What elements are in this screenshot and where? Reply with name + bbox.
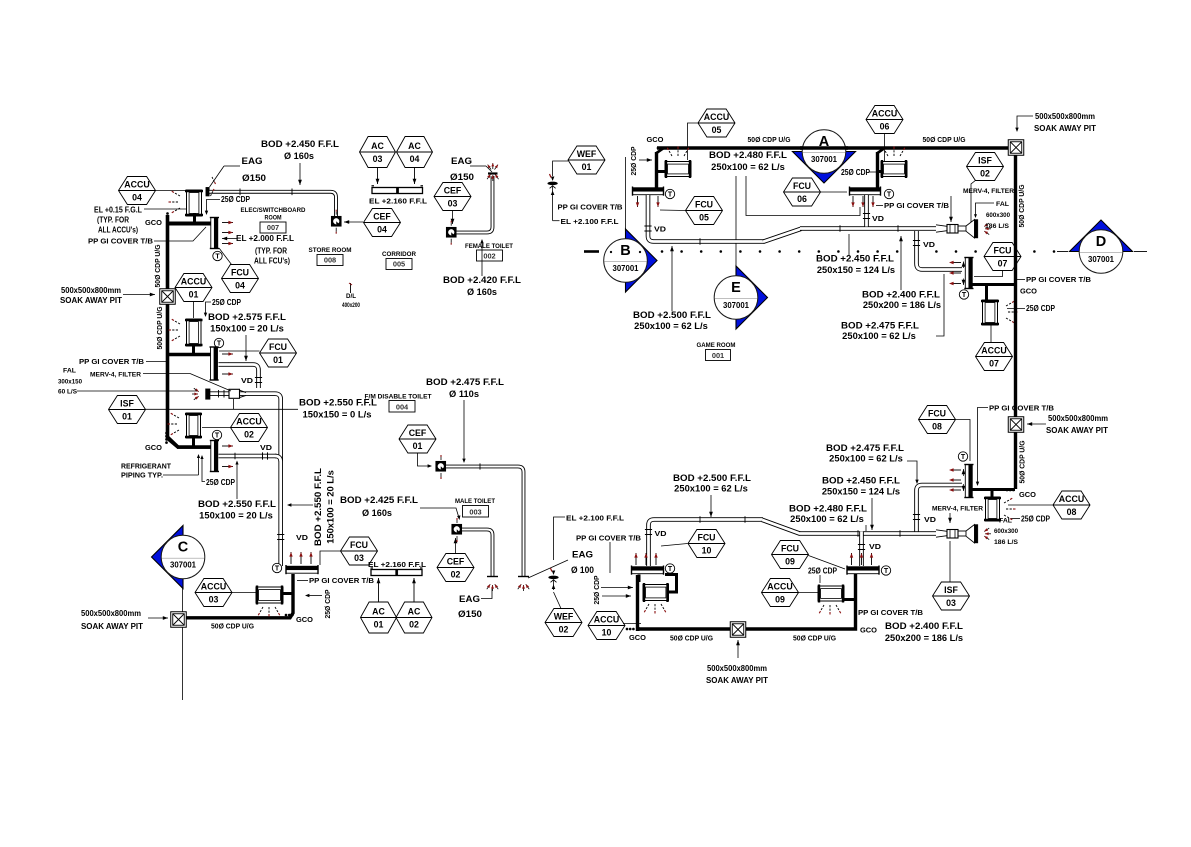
- duct riser to FCU07: [917, 231, 963, 270]
- svg-text:05: 05: [699, 213, 709, 223]
- hexagon tag CEF 01: [399, 425, 436, 453]
- svg-text:500x500x800mm: 500x500x800mm: [61, 286, 121, 295]
- svg-text:06: 06: [797, 194, 807, 204]
- svg-text:ACCU: ACCU: [981, 345, 1006, 355]
- svg-text:SOAK AWAY PIT: SOAK AWAY PIT: [60, 296, 122, 305]
- section cut centerline dash left of B: [584, 250, 599, 253]
- ACCU 07 unit: [983, 300, 998, 325]
- svg-text:VD: VD: [655, 529, 668, 538]
- VD damper FCU10: [645, 529, 652, 531]
- refrigerant marks ACCU08: [1004, 500, 1010, 504]
- service marks EAG cap top-left: [212, 177, 215, 182]
- svg-text:BOD +2.500 F.F.L: BOD +2.500 F.F.L: [673, 473, 752, 483]
- VD damper riser FCU08: [913, 514, 920, 516]
- svg-text:T: T: [215, 433, 220, 440]
- duct diagonal jog: [763, 229, 801, 242]
- GCO ticks ACCU02: [165, 432, 168, 435]
- leader ISF03: [949, 541, 951, 582]
- svg-text:01: 01: [122, 412, 132, 422]
- leader soak pit bottom: [737, 640, 739, 658]
- svg-text:10: 10: [602, 628, 612, 638]
- svg-text:Ø150: Ø150: [242, 173, 266, 183]
- svg-text:EAG: EAG: [242, 156, 263, 166]
- svg-text:25Ø CDP: 25Ø CDP: [1026, 304, 1055, 313]
- vertical text 500 CDP U/G right lower: [1018, 440, 1027, 483]
- svg-text:500x500x800mm: 500x500x800mm: [81, 609, 141, 618]
- hexagon tag ACCU 06: [866, 106, 903, 134]
- svg-text:307001: 307001: [723, 301, 750, 310]
- svg-text:ACCU: ACCU: [124, 179, 149, 189]
- FAL grille bar left: [206, 389, 211, 400]
- svg-text:25Ø CDP: 25Ø CDP: [323, 589, 332, 618]
- hexagon tag AC 04: [397, 137, 433, 168]
- svg-text:FCU: FCU: [231, 267, 249, 277]
- ACCU 04 outdoor unit: [187, 190, 202, 216]
- svg-text:SOAK AWAY PIT: SOAK AWAY PIT: [81, 622, 143, 631]
- svg-text:EAG: EAG: [459, 594, 480, 604]
- return air assembly ISF01: [206, 394, 281, 566]
- ACCU 01 unit: [187, 319, 202, 346]
- svg-text:GCO: GCO: [145, 218, 162, 227]
- hexagon tag ACCU 02: [231, 414, 268, 442]
- svg-text:500x500x800mm: 500x500x800mm: [1048, 414, 1108, 423]
- svg-text:ACCU: ACCU: [201, 581, 226, 591]
- hexagon tag ACCU 08: [1053, 491, 1090, 519]
- svg-text:Ø 100: Ø 100: [571, 565, 594, 575]
- hexagon tag AC 03: [360, 137, 396, 168]
- FCU 04 unit: [211, 218, 215, 249]
- ceiling fan box CEF03 female toilet: [447, 228, 457, 238]
- svg-text:FAL: FAL: [996, 201, 1009, 208]
- EAG terminal male duct: [495, 584, 498, 589]
- svg-text:25Ø CDP: 25Ø CDP: [808, 567, 837, 576]
- svg-text:50Ø CDP U/G: 50Ø CDP U/G: [1018, 440, 1027, 483]
- leader FCU05: [660, 209, 686, 212]
- svg-text:D: D: [1096, 234, 1106, 250]
- svg-text:04: 04: [377, 225, 387, 235]
- svg-text:PP GI COVER T/B: PP GI COVER T/B: [884, 201, 950, 210]
- section marker A 307001: [793, 152, 856, 184]
- leader WEF02: [554, 592, 562, 609]
- svg-text:BOD +2.575 F.F.L: BOD +2.575 F.F.L: [208, 312, 287, 322]
- svg-text:ACCU: ACCU: [594, 614, 619, 624]
- refrigerant marks ACCU09: [821, 605, 825, 611]
- leader arrow 250CDP FCU05: [639, 159, 652, 161]
- ACCU 06 outdoor unit: [881, 162, 907, 177]
- svg-text:BOD +2.450 F.F.L: BOD +2.450 F.F.L: [822, 476, 901, 486]
- svg-text:250x100 = 62 L/s: 250x100 = 62 L/s: [842, 331, 916, 341]
- svg-text:B: B: [620, 243, 630, 259]
- svg-text:WEF: WEF: [554, 611, 574, 621]
- thermostat T FCU04: [213, 251, 222, 260]
- svg-text:PP GI COVER T/B: PP GI COVER T/B: [88, 237, 154, 246]
- svg-text:01: 01: [582, 162, 592, 172]
- MERV-4 filter box top right: [947, 225, 958, 234]
- svg-text:GAME ROOM: GAME ROOM: [697, 342, 736, 349]
- EAG terminal FM duct: [526, 584, 529, 589]
- svg-text:T: T: [275, 566, 280, 573]
- svg-text:Ø 160s: Ø 160s: [362, 508, 392, 518]
- svg-text:VD: VD: [241, 376, 254, 385]
- svg-text:C: C: [178, 540, 189, 556]
- section marker E 307001: [735, 176, 737, 275]
- svg-text:VD: VD: [654, 225, 667, 234]
- svg-text:06: 06: [880, 122, 890, 132]
- svg-text:WEF: WEF: [577, 149, 597, 159]
- hexagon tag CEF 03: [434, 183, 471, 211]
- leader arrow rotated BOD: [289, 504, 313, 506]
- thermostat T FCU10: [665, 564, 674, 573]
- vertical text 500 CDP U/G lower: [155, 306, 164, 349]
- arrows AC01 AC02 to diffuser: [378, 578, 380, 602]
- svg-text:09: 09: [785, 557, 795, 567]
- svg-text:03: 03: [373, 154, 383, 164]
- svg-text:T: T: [961, 454, 966, 461]
- hexagon tag ACCU 07: [976, 343, 1013, 371]
- condensate loop bottom: [639, 574, 856, 629]
- svg-text:01: 01: [374, 620, 384, 630]
- svg-text:FCU: FCU: [269, 342, 287, 352]
- leader WEF01 to cowl: [553, 161, 568, 176]
- svg-text:50Ø CDP U/G: 50Ø CDP U/G: [153, 244, 162, 287]
- vertical text 250 CDP FCU03: [323, 589, 332, 618]
- svg-text:PP GI COVER T/B: PP GI COVER T/B: [1026, 275, 1092, 284]
- hexagon tag FCU 03: [341, 537, 378, 565]
- svg-text:ALL ACCU's): ALL ACCU's): [98, 226, 138, 235]
- duct joint ticks misc: [239, 189, 241, 196]
- svg-text:04: 04: [410, 154, 420, 164]
- svg-text:09: 09: [775, 595, 785, 605]
- svg-text:08: 08: [1067, 507, 1077, 517]
- svg-text:07: 07: [998, 259, 1008, 269]
- duct run upper level to FAL: [800, 226, 936, 231]
- svg-text:E: E: [731, 280, 741, 296]
- hexagon tag ACCU 01: [175, 274, 212, 302]
- svg-text:250x100 = 62 L/s: 250x100 = 62 L/s: [634, 321, 708, 331]
- FCU 08 unit: [965, 465, 969, 498]
- arrows AC03 AC04 to diffuser: [377, 168, 379, 185]
- refrigerant marks ACCU07: [1006, 303, 1012, 307]
- svg-text:(TYP. FOR: (TYP. FOR: [255, 247, 287, 256]
- svg-text:300x150: 300x150: [58, 379, 82, 386]
- line below C marker: [182, 589, 184, 613]
- svg-text:PIPING TYP.: PIPING TYP.: [121, 473, 163, 480]
- svg-text:EAG: EAG: [572, 550, 593, 560]
- VD damper FCU09: [858, 544, 865, 546]
- refrigerant marks ACCU06: [885, 150, 889, 156]
- flow arrows FCU02: [222, 445, 233, 447]
- FCU 01 unit: [211, 347, 215, 380]
- pipe ACCU01 drain: [192, 346, 195, 356]
- hexagon tag FCU 07: [984, 243, 1021, 271]
- duct riser FCU09: [859, 532, 864, 567]
- slot diffuser EL+2.160 top: [372, 188, 423, 194]
- main pipe through marker A: [800, 146, 848, 149]
- duct stub to FAL cone bottom: [958, 530, 966, 532]
- ceiling fan box CEF04: [332, 217, 342, 227]
- svg-text:ACCU: ACCU: [872, 108, 897, 118]
- svg-text:ISF: ISF: [978, 155, 992, 165]
- svg-text:150x100 = 20 L/s: 150x100 = 20 L/s: [210, 324, 284, 334]
- svg-text:D/L: D/L: [346, 293, 356, 300]
- hexagon tag FCU 10: [688, 530, 725, 558]
- svg-text:EL +2.000 F.F.L: EL +2.000 F.F.L: [236, 234, 294, 243]
- leader FCU10: [661, 544, 688, 547]
- svg-text:GCO: GCO: [1020, 287, 1037, 296]
- D/L symbol and label: [350, 283, 352, 293]
- leader ISF01 and BOD2.550 zero: [146, 408, 299, 410]
- vertical text 250 CDP ACCU10: [592, 575, 601, 604]
- hexagon tag FCU 08: [919, 406, 956, 434]
- svg-text:03: 03: [209, 595, 219, 605]
- hexagon tag ISF 03: [933, 582, 970, 610]
- svg-text:600x300: 600x300: [986, 212, 1010, 219]
- svg-text:T: T: [884, 568, 889, 575]
- flow arrows FCU07 left: [951, 262, 961, 264]
- svg-text:SOAK AWAY PIT: SOAK AWAY PIT: [706, 676, 768, 685]
- svg-text:04: 04: [235, 281, 245, 291]
- hexagon tag ACCU 04: [119, 177, 156, 205]
- pipe ACCU05 drain: [655, 152, 658, 189]
- hexagon tag WEF 02: [545, 609, 582, 637]
- centerline dots B: [610, 251, 612, 253]
- svg-text:VD: VD: [260, 443, 273, 452]
- svg-text:EAG: EAG: [451, 156, 472, 166]
- svg-text:VD: VD: [924, 515, 937, 524]
- svg-text:50Ø CDP U/G: 50Ø CDP U/G: [211, 622, 254, 631]
- exhaust duct FM disable toilet: [446, 467, 524, 577]
- duct elbow FCU02 to riser: [275, 456, 281, 462]
- pipe ACCU02 drain: [192, 437, 195, 447]
- leader ACCU09: [798, 592, 818, 594]
- section marker C 307001: [152, 526, 184, 589]
- soak away pit top right: [1008, 140, 1024, 156]
- svg-text:150x150 = 0 L/s: 150x150 = 0 L/s: [303, 410, 372, 420]
- leader ACCU06 to unit: [884, 134, 886, 161]
- ceiling fan box male toilet: [452, 525, 462, 535]
- svg-text:VD: VD: [923, 240, 936, 249]
- svg-text:EL +2.100 F.F.L: EL +2.100 F.F.L: [561, 217, 619, 226]
- VD damper long riser: [277, 534, 284, 536]
- duct riser FCU10: [649, 520, 655, 567]
- svg-text:02: 02: [451, 570, 461, 580]
- svg-text:EL +2.160 F.F.L: EL +2.160 F.F.L: [369, 197, 428, 206]
- svg-text:T: T: [215, 254, 220, 261]
- svg-text:25Ø CDP: 25Ø CDP: [629, 146, 638, 175]
- ISF01 inline fan box: [229, 389, 240, 398]
- svg-text:BOD +2.550 F.F.L: BOD +2.550 F.F.L: [198, 499, 277, 509]
- GCO dots top right: [657, 147, 660, 150]
- svg-text:AC: AC: [408, 141, 421, 151]
- thermostat T FCU09: [881, 566, 890, 575]
- svg-text:500x500x800mm: 500x500x800mm: [1035, 112, 1095, 121]
- thermostat T FCU08: [958, 452, 967, 461]
- arrow CEF04 to fanbox: [344, 221, 363, 223]
- svg-text:GCO: GCO: [629, 633, 646, 642]
- service marks fan boxes: [335, 228, 337, 232]
- svg-text:FEMALE TOILET: FEMALE TOILET: [465, 243, 513, 250]
- leader FCU01: [219, 350, 260, 352]
- main 500 CDP U/G pipe top horizontal: [657, 146, 1017, 149]
- duct stub to FAL cone: [958, 225, 966, 227]
- svg-text:08: 08: [932, 422, 942, 432]
- svg-text:25Ø CDP: 25Ø CDP: [221, 195, 250, 204]
- refrigerant marks ACCU04: [174, 193, 180, 197]
- svg-text:ACCU: ACCU: [704, 112, 729, 122]
- svg-text:10: 10: [702, 546, 712, 556]
- svg-text:50Ø CDP U/G: 50Ø CDP U/G: [793, 634, 836, 643]
- thermostat T FCU07: [959, 290, 968, 299]
- refrigerant marks ACCU01: [174, 321, 180, 325]
- FCU 10 unit: [632, 567, 664, 571]
- svg-text:150x100 = 20 L/s: 150x100 = 20 L/s: [326, 470, 336, 544]
- GCO dots ACCU06: [884, 147, 887, 150]
- svg-text:03: 03: [354, 553, 364, 563]
- svg-text:307001: 307001: [811, 155, 838, 164]
- svg-text:307001: 307001: [613, 264, 640, 273]
- hexagon tag ISF 02: [967, 153, 1004, 181]
- svg-text:GCO: GCO: [296, 615, 313, 624]
- section marker D 307001: [1070, 220, 1133, 252]
- svg-text:PP GI COVER T/B: PP GI COVER T/B: [576, 534, 642, 543]
- ACCU 03 unit: [256, 587, 283, 603]
- svg-text:T: T: [962, 292, 967, 299]
- MERV-4 filter box bottom right: [947, 530, 958, 539]
- svg-text:600x300: 600x300: [994, 528, 1018, 535]
- VD damper FCU02 duct: [262, 452, 264, 459]
- soak away pit bottom middle: [730, 622, 746, 638]
- svg-text:FCU: FCU: [993, 245, 1011, 255]
- svg-text:03: 03: [946, 598, 956, 608]
- svg-text:BOD +2.475 F.F.L: BOD +2.475 F.F.L: [826, 443, 905, 453]
- FAL intake cone bottom right: [966, 525, 975, 544]
- EAG riser duct female toilet: [457, 176, 493, 233]
- supply duct FCU02: [219, 454, 277, 459]
- svg-text:50Ø CDP U/G: 50Ø CDP U/G: [923, 135, 966, 144]
- leader FCU07: [974, 271, 1003, 277]
- svg-text:EL +2.100 F.F.L: EL +2.100 F.F.L: [566, 514, 624, 523]
- refrigerant marks ACCU05: [669, 150, 673, 156]
- vertical text 500 CDP U/G right upper: [1017, 184, 1026, 227]
- leader ACCU05 to unit: [688, 123, 699, 160]
- svg-text:ACCU: ACCU: [236, 416, 261, 426]
- svg-text:500x500x800mm: 500x500x800mm: [707, 664, 767, 673]
- hexagon tag FCU 09: [772, 541, 809, 569]
- exhaust duct male toilet: [462, 530, 493, 577]
- svg-text:BOD +2.400 F.F.L: BOD +2.400 F.F.L: [885, 621, 964, 631]
- VD damper FCU05: [644, 225, 651, 227]
- flow arrows FCU10 up: [635, 553, 637, 565]
- svg-text:01: 01: [189, 290, 199, 300]
- svg-text:002: 002: [483, 252, 495, 261]
- EAG duct from ACCU04 to CEF04 fanbox: [209, 192, 336, 216]
- vertical text 500 CDP U/G upper: [153, 244, 162, 287]
- refrigerant marks ACCU10: [646, 604, 650, 610]
- svg-text:186 L/S: 186 L/S: [985, 223, 1009, 230]
- svg-text:003: 003: [469, 508, 481, 517]
- refrigerant marks ACCU02: [173, 415, 179, 419]
- leader BOD+2.480 to FCU06 duct: [746, 176, 860, 216]
- svg-text:CEF: CEF: [447, 556, 465, 566]
- FCU 06 unit: [850, 188, 881, 192]
- duct transition to filter top right: [936, 225, 947, 227]
- svg-text:PP GI COVER T/B: PP GI COVER T/B: [558, 203, 624, 212]
- ACCU 09 unit: [818, 586, 844, 601]
- WEF02 exhaust cowl: [552, 571, 556, 576]
- pipe ACCU04 drain stub: [193, 213, 196, 222]
- svg-text:Ø 160s: Ø 160s: [284, 151, 314, 161]
- svg-text:PP GI COVER T/B: PP GI COVER T/B: [858, 608, 924, 617]
- svg-text:BOD +2.550 F.F.L: BOD +2.550 F.F.L: [299, 398, 378, 408]
- svg-text:BOD +2.550 F.F.L: BOD +2.550 F.F.L: [313, 467, 323, 546]
- hexagon tag AC 02: [396, 602, 432, 633]
- pipe FCU03 drain: [186, 574, 293, 618]
- svg-text:T: T: [887, 192, 892, 199]
- svg-text:02: 02: [559, 625, 569, 635]
- svg-text:CEF: CEF: [409, 428, 427, 438]
- hexagon tag FCU 06: [784, 178, 821, 206]
- svg-text:VD: VD: [869, 542, 882, 551]
- svg-text:50Ø CDP U/G: 50Ø CDP U/G: [1017, 184, 1026, 227]
- svg-text:07: 07: [989, 359, 999, 369]
- svg-text:SOAK AWAY PIT: SOAK AWAY PIT: [1046, 426, 1108, 435]
- svg-text:250x150 = 124 L/s: 250x150 = 124 L/s: [817, 265, 895, 275]
- ACCU 08 unit: [986, 497, 1000, 521]
- pipe FCU09 drain: [854, 574, 857, 600]
- hexagon tag AC 01: [361, 602, 397, 633]
- svg-text:BOD +2.475 F.F.L: BOD +2.475 F.F.L: [426, 377, 505, 387]
- ceiling fan box CEF01 FM toilet: [436, 462, 446, 472]
- svg-text:02: 02: [980, 169, 990, 179]
- svg-text:FCU: FCU: [697, 532, 715, 542]
- svg-text:MERV-4, FILTER: MERV-4, FILTER: [932, 506, 983, 513]
- svg-text:186 L/S: 186 L/S: [994, 539, 1018, 546]
- svg-text:50Ø CDP U/G: 50Ø CDP U/G: [670, 634, 713, 643]
- ACCU 05 outdoor unit: [665, 162, 691, 177]
- hexagon tag ACCU 09: [762, 579, 799, 607]
- svg-text:01: 01: [273, 355, 283, 365]
- leader ACCU02: [202, 427, 231, 429]
- centerline stubs at D: [1057, 251, 1068, 253]
- svg-text:FCU: FCU: [350, 540, 368, 550]
- FCU 09 unit: [847, 567, 879, 571]
- flow arrows FCU08 left: [951, 469, 961, 471]
- main duct run bottom: [654, 517, 763, 522]
- GCO dots FCU07: [1005, 283, 1008, 286]
- svg-text:250x100 = 62 L/s: 250x100 = 62 L/s: [790, 514, 864, 524]
- svg-text:AC: AC: [408, 606, 421, 616]
- leader BOD+2.425 to fanbox: [420, 508, 459, 518]
- duct joint ticks: [218, 390, 220, 398]
- EAG duct cap: [206, 187, 210, 196]
- svg-text:FAL: FAL: [63, 368, 76, 375]
- svg-text:(TYP. FOR: (TYP. FOR: [97, 216, 129, 225]
- FCU 05 unit: [633, 188, 664, 192]
- svg-text:GCO: GCO: [145, 443, 162, 452]
- svg-text:25Ø CDP: 25Ø CDP: [212, 298, 241, 307]
- soak away pit bottom right: [1008, 417, 1024, 433]
- svg-text:25Ø CDP: 25Ø CDP: [592, 575, 601, 604]
- svg-text:008: 008: [324, 256, 336, 265]
- leader BOD+2.450: [848, 234, 850, 255]
- soak away pit top left: [160, 289, 176, 305]
- centerline B to main: [625, 157, 627, 238]
- leader FCU09: [809, 556, 846, 570]
- svg-text:VD: VD: [872, 214, 885, 223]
- svg-text:MERV-4, FILTER: MERV-4, FILTER: [90, 372, 141, 379]
- svg-text:AC: AC: [372, 606, 385, 616]
- supply duct FCU05 riser and run to east: [648, 195, 764, 242]
